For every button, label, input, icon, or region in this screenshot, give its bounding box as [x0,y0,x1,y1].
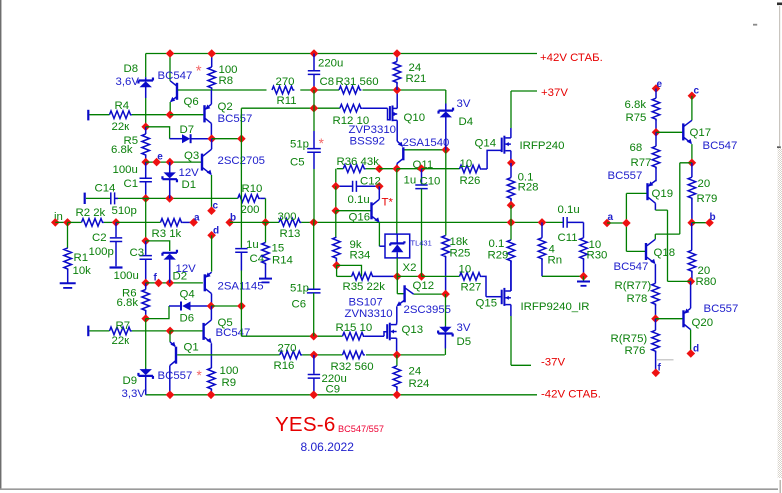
junction dot C2 top [112,218,121,227]
capacitor C2 [115,222,117,237]
svg-text:300: 300 [278,211,297,223]
transistor Q6 BC547 [176,83,178,100]
svg-text:D1: D1 [182,179,197,191]
svg-text:-37V: -37V [541,357,565,369]
svg-text:10k: 10k [73,265,92,277]
TL431 X2 box [385,234,410,258]
svg-text:BSS92: BSS92 [350,136,385,148]
wire f-rail [146,282,203,284]
mosfet Q15 IRFP9240 [503,288,505,306]
svg-text:C12: C12 [360,176,381,188]
wire R2 to R3 [116,221,161,223]
junction dot Q6 emitter / Q2 base [166,110,175,119]
resistor R28 [510,163,512,178]
node d left dot [207,231,216,240]
node b right dot [705,218,714,227]
resistor R31 on rail2 [339,86,361,94]
node f left dot [154,279,163,288]
svg-text:2SC3955: 2SC3955 [404,304,452,316]
svg-text:6.8k: 6.8k [117,297,139,309]
wire Q12 emitter to Q13 drain [396,306,398,322]
wire Q20 emitter to R80 bottom [690,281,692,308]
transistor Q11 2SA1540 [402,147,404,160]
wire Q11 base [405,149,446,151]
resistor R34 [335,211,337,238]
wire collector column vertical [240,108,242,248]
svg-text:100: 100 [220,365,239,377]
svg-text:D2: D2 [173,271,188,283]
wire Q19/Q18 base column [626,193,646,251]
zener D8 [145,77,147,80]
mosfet Q10 ZVP3310 [388,108,390,120]
junction dot rail199 at D1 [165,194,174,203]
ground under R14 [265,264,267,278]
svg-text:BC547: BC547 [158,70,193,82]
capacitor C1 [145,162,147,177]
wire +37V stub [511,90,537,92]
transistor Q12 2SC3955 [403,285,405,302]
svg-text:Q18: Q18 [654,247,676,259]
wire Q17 base [656,131,683,133]
wire C10 line to R27 [422,275,460,277]
svg-text:R1: R1 [74,252,89,264]
junction dot R80 bottom [687,277,696,286]
svg-text:d: d [693,344,699,355]
resistor R14 [265,222,267,242]
svg-text:2SA1145: 2SA1145 [218,281,264,293]
zener D2 [162,250,177,256]
svg-text:0.1u: 0.1u [558,204,580,216]
svg-text:6.8k: 6.8k [111,144,133,156]
svg-text:22к: 22к [112,121,131,133]
svg-text:8.06.2022: 8.06.2022 [301,440,355,454]
junction dot Q11 collector [393,164,402,173]
wire D6 branch lower [146,306,169,319]
junction dot C12 left [332,182,341,191]
node d right dot [687,349,696,358]
wire C1 junction to D2 branch [145,198,147,241]
junction dot R78 bottom [651,314,660,323]
wire node b right [692,222,710,224]
junction dot Q14 source [507,159,516,168]
svg-text:D9: D9 [123,375,138,387]
svg-text:a: a [608,212,614,223]
junction dot D6 branch [141,314,150,323]
svg-text:Q15: Q15 [476,298,498,310]
junction dot base column [622,219,631,228]
svg-text:D8: D8 [124,63,139,75]
wire D8 to D7 junction [145,98,147,127]
svg-text:R76: R76 [625,345,646,357]
svg-text:R29: R29 [488,250,509,262]
junction dot rail3 C5 [310,104,319,113]
svg-text:ZVP3310: ZVP3310 [349,124,397,136]
resistor R75 [655,89,657,99]
capacitor C3 [145,241,147,255]
svg-text:270: 270 [278,343,297,355]
wire D7 branch upper [146,127,170,139]
svg-text:BC557: BC557 [218,113,253,125]
svg-text:R10: R10 [242,183,263,195]
svg-text:R21: R21 [406,73,427,85]
wire R10 bend to rail222 [265,198,267,222]
junction dot C12 right [375,182,384,191]
wire rail336 [241,306,342,336]
resistor R29 [510,222,512,240]
wire D6 junction to D9 [145,319,147,369]
capacitor C8 [313,54,315,71]
svg-text:3,6V: 3,6V [116,76,140,88]
svg-text:C3: C3 [130,247,145,259]
svg-text:X2: X2 [403,262,417,274]
scrollbar dithered track [778,148,782,478]
capacitor C6 [313,222,315,288]
junction dot C9 top [310,351,319,360]
svg-text:100u: 100u [113,164,138,176]
resistor R7 [90,330,110,332]
junction dot Q16 collector [375,164,384,173]
svg-text:R77: R77 [631,157,652,169]
svg-text:R35 22k: R35 22k [343,281,386,293]
svg-text:100p: 100p [89,246,114,258]
svg-text:220u: 220u [318,58,343,70]
svg-text:Q19: Q19 [652,188,674,200]
zener D5 [445,294,447,326]
node e left dot [152,158,161,167]
wire Q16 collector to Q11 collector dot [379,168,397,170]
wire TL431 bottom to R35 line [396,258,398,277]
ground under R30 [583,276,585,281]
svg-text:510p: 510p [112,205,137,217]
junction dot R10/R14 node [261,218,270,227]
wire +42V top rail [146,53,537,55]
svg-text:TL431: TL431 [411,239,432,248]
svg-text:c: c [694,86,700,97]
svg-text:R2 2k: R2 2k [76,207,106,219]
junction dot R28 bottom [507,201,516,210]
svg-text:C9: C9 [326,384,341,396]
svg-text:Q1: Q1 [184,342,199,354]
svg-text:22к: 22к [112,335,131,347]
wire rail3 from collector column [241,107,340,109]
input node dot [51,218,60,227]
wire Q1 base rail354 [177,354,445,356]
svg-text:Q17: Q17 [690,127,712,139]
wire rail222 R13 to C11 [301,221,563,223]
svg-text:3V: 3V [457,98,471,110]
svg-text:3V: 3V [457,322,471,334]
svg-text:D6: D6 [180,313,195,325]
junction dot Rn rail222 [538,218,547,227]
transistor Q5 BC547 [202,323,204,340]
resistor R26 [460,165,482,173]
wire Q5 base [170,330,203,332]
svg-text:12V: 12V [179,167,200,179]
junction dot C10 bottom [417,272,426,281]
transistor Q3 2SC2705 [201,154,203,171]
wire C10 dot to R26 [422,168,460,170]
svg-text:R8: R8 [219,75,234,87]
svg-text:R31 560: R31 560 [336,76,379,88]
wire D2 branch [146,241,170,251]
svg-text:IRFP240: IRFP240 [520,140,565,152]
junction dot Q11 base / D4 [442,146,451,155]
wire e-rail [146,161,202,163]
wire TL431 top [396,169,398,234]
scrollbar top arrow mark [777,2,782,5]
node b left dot [225,218,234,227]
transistor Q18 BC547 [645,243,647,260]
svg-text:b: b [710,212,716,223]
svg-text:R75: R75 [626,112,647,124]
svg-text:*: * [196,62,202,79]
junction dot R9 bottom rail [207,391,216,400]
junction dot R1 top [63,218,72,227]
junction dot Q2/Q3 collectors [207,134,216,143]
diode D7 [170,138,182,140]
TL431 internal symbol [396,234,398,243]
svg-text:0.1: 0.1 [489,238,505,250]
junction dot Q1 collector / Q5 base [166,327,175,336]
junction dot R25 bottom [441,290,450,299]
wire Q19 collector jog [655,210,667,281]
svg-text:R3 1k: R3 1k [152,228,182,240]
wire Q3 emitter to node c [211,175,213,211]
svg-text:Q13: Q13 [402,324,424,336]
wire Q12 base from TL431 line [397,276,404,293]
junction dot collector node right [237,134,246,143]
svg-text:R30: R30 [587,250,608,262]
wire Q17 emitter to Q18 collector [655,163,692,240]
svg-text:BC547: BC547 [216,327,251,339]
resistor R8 [211,54,213,68]
wire Rn/R30 bottom [542,275,584,277]
transistor Q16 [370,202,372,219]
svg-text:c: c [213,201,219,212]
junction dot C6 bottom [309,332,318,341]
svg-text:R(R77): R(R77) [615,280,652,292]
wire +37V vertical [510,91,512,128]
svg-text:C5: C5 [290,157,305,169]
svg-text:Q3: Q3 [184,150,199,162]
zener D9 [145,369,147,371]
wire node a to base column [607,222,626,224]
resistor Rn [541,222,543,237]
svg-text:BC547: BC547 [703,140,738,152]
svg-text:BC557: BC557 [704,303,739,315]
svg-text:*: * [319,136,325,151]
window frame bottom edge [0,488,778,490]
svg-text:200: 200 [241,204,260,216]
wire rail222 b to R13 [230,221,279,223]
resistor R3 [161,219,183,227]
junction dot D6 node right [237,302,246,311]
junction dot C5/C6 rail222 [309,218,318,227]
resistor R9 [210,343,212,368]
junction dot rail199 at C1 [141,194,150,203]
capacitor C10 [421,169,423,185]
node f right dot [652,369,661,378]
svg-text:20: 20 [698,178,711,190]
scrollbar thumb bottom edge [777,146,781,148]
junction dot e-rail left [141,158,150,167]
wire Q11c dot to C10 [397,168,422,170]
resistor R36 [343,165,365,173]
wire Q15 drain to -37V [511,316,531,365]
junction dot Q16 base [332,206,341,215]
svg-text:R4: R4 [115,100,130,112]
resistor R15 [343,332,365,340]
node a right dot [603,219,612,228]
junction dot Q17 base [652,128,661,137]
svg-text:+42V СТАБ.: +42V СТАБ. [540,52,603,64]
svg-text:BC557: BC557 [608,170,643,182]
capacitor C12 [336,185,353,187]
junction dot C8 bottom [310,86,319,95]
svg-text:R9: R9 [222,377,237,389]
svg-text:10: 10 [460,158,473,170]
svg-text:R27: R27 [461,282,482,294]
resistor R25 [445,150,447,236]
svg-text:R80: R80 [696,276,717,288]
svg-text:24: 24 [409,366,422,378]
svg-text:YES-6: YES-6 [275,413,336,436]
resistor R6 [145,283,147,290]
svg-text:R78: R78 [627,293,648,305]
resistor R13 [279,219,301,227]
svg-text:D7: D7 [180,124,195,136]
ground under R1 [60,282,76,284]
svg-text:Q2: Q2 [218,101,233,113]
junction dot R30 bottom [579,272,588,281]
svg-text:10: 10 [459,264,472,276]
junction dot R24 bottom [393,391,402,400]
wire Q12 collector to R25 bottom [414,293,446,295]
wire Q2 base [170,114,203,116]
junction dot C9 bottom [309,391,318,400]
wire -42V bottom rail [146,394,537,396]
svg-text:C4: C4 [250,253,265,265]
ground bar under C2 [110,266,123,268]
wire node d to Q4 emitter [211,235,213,271]
svg-text:R15 10: R15 10 [336,322,373,334]
mosfet Q14 IRFP240 [487,150,501,169]
junction dot R8 top [207,49,216,58]
svg-text:R32 560: R32 560 [331,361,374,373]
svg-text:BC547/557: BC547/557 [338,424,384,434]
svg-text:D5: D5 [457,336,472,348]
svg-text:51p: 51p [290,283,309,295]
svg-text:Q10: Q10 [404,112,426,124]
resistor R32 [343,351,365,359]
resistor R11 [272,86,294,94]
toolbar remnant dash [753,24,757,26]
wire Q17 emitter [691,144,693,163]
svg-text:C8: C8 [320,76,335,88]
svg-text:e: e [657,79,663,90]
svg-text:BS107: BS107 [349,297,383,309]
capacitor C4 [235,249,247,253]
svg-text:Q20: Q20 [692,317,714,329]
transistor Q19 BC557 [646,183,648,200]
wire Q17 collector [691,96,693,121]
svg-text:2SA1540: 2SA1540 [403,137,450,149]
diode D6 [169,305,181,307]
resistor R30 [583,222,585,237]
resistor R1 [67,222,69,248]
resistor R10 [238,195,260,203]
resistor R76 [655,319,657,331]
svg-text:C6: C6 [292,299,307,311]
svg-text:BC557: BC557 [158,370,193,382]
transistor Q20 BC557 [682,310,684,327]
svg-text:R26: R26 [460,175,481,187]
svg-text:Q12: Q12 [413,280,435,292]
junction dot D2 bottom [165,279,174,288]
svg-text:R(R75): R(R75) [611,333,648,345]
svg-text:18k: 18k [450,236,469,248]
svg-text:R24: R24 [409,378,430,390]
svg-text:e: e [157,152,163,163]
svg-text:Q6: Q6 [184,96,199,108]
wire R35 line to C10 bottom [397,275,421,277]
svg-text:C10: C10 [420,176,441,188]
wire input to R2 [55,221,67,223]
resistor R12 [340,104,362,112]
svg-text:Q4: Q4 [180,289,195,301]
svg-text:C1: C1 [124,178,139,190]
grey artifact line near R76 [657,359,674,361]
junction dot Q6 collector rail [166,49,175,58]
resistor R27 [460,273,482,281]
svg-text:D4: D4 [459,116,474,128]
transistor Q1 BC557 [175,347,177,364]
junction dot Q1 collector bottom rail [166,391,175,400]
capacitor C11 [563,217,567,228]
node c right dot [688,92,697,101]
capacitor C5 [313,90,315,108]
svg-text:C14: C14 [95,183,116,195]
junction dot Q17 emitter node [688,159,697,168]
resistor R78 [654,264,656,283]
wire R34 bottom to R35 [337,265,362,276]
svg-text:Rn: Rn [548,255,563,267]
resistor R24 [396,355,398,366]
svg-text:100u: 100u [114,270,139,282]
resistor R80 [691,223,693,251]
svg-text:T*: T* [382,197,394,209]
svg-text:R79: R79 [697,193,718,205]
svg-text:51p: 51p [290,139,309,151]
svg-text:R13: R13 [280,228,301,240]
svg-text:R16: R16 [274,360,295,372]
svg-text:-42V СТАБ.: -42V СТАБ. [541,388,601,400]
scrollbar bottom corner line [779,480,781,493]
wire rail199 C14 to R10 [118,197,238,199]
wire collector node to R15 column [211,305,241,307]
svg-text:a: a [194,213,200,224]
zener D1 [169,162,171,173]
svg-text:d: d [213,226,219,237]
resistor R4 with wire to Q2 base node [90,114,110,116]
junction dot TL431 bottom line [393,272,402,281]
svg-text:68: 68 [630,142,643,154]
svg-text:0.1u: 0.1u [348,194,370,206]
wire Q20 base [656,318,683,320]
resistor R35 [337,275,352,277]
wire R28 to rail222 [510,205,512,222]
resistor R21 [396,54,398,62]
